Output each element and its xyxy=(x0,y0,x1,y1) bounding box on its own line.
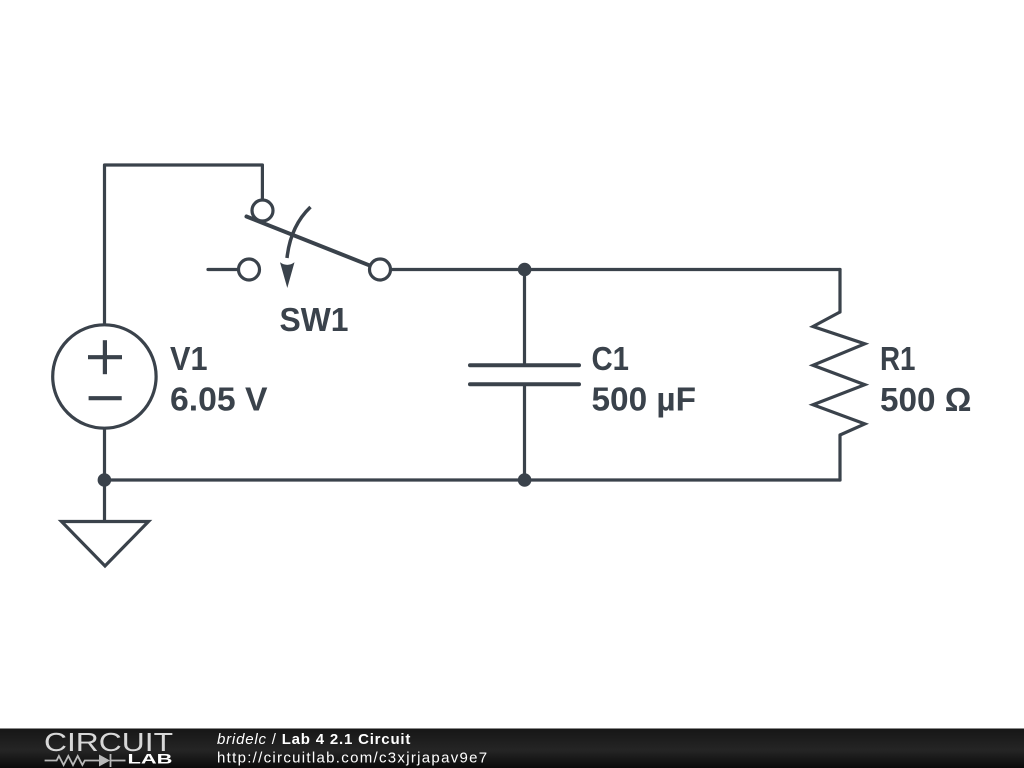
svg-text:LAB: LAB xyxy=(128,751,173,767)
svg-text:C1: C1 xyxy=(592,341,630,378)
svg-text:6.05 V: 6.05 V xyxy=(170,382,268,419)
svg-text:V1: V1 xyxy=(170,341,208,378)
svg-text:R1: R1 xyxy=(880,341,916,378)
svg-text:SW1: SW1 xyxy=(280,302,349,339)
svg-text:bridelc / Lab 4 2.1 Circuit: bridelc / Lab 4 2.1 Circuit xyxy=(217,731,411,748)
svg-text:500 µF: 500 µF xyxy=(592,382,697,419)
svg-text:500 Ω: 500 Ω xyxy=(880,382,972,419)
svg-text:http://circuitlab.com/c3xjrjap: http://circuitlab.com/c3xjrjapav9e7 xyxy=(217,750,488,767)
